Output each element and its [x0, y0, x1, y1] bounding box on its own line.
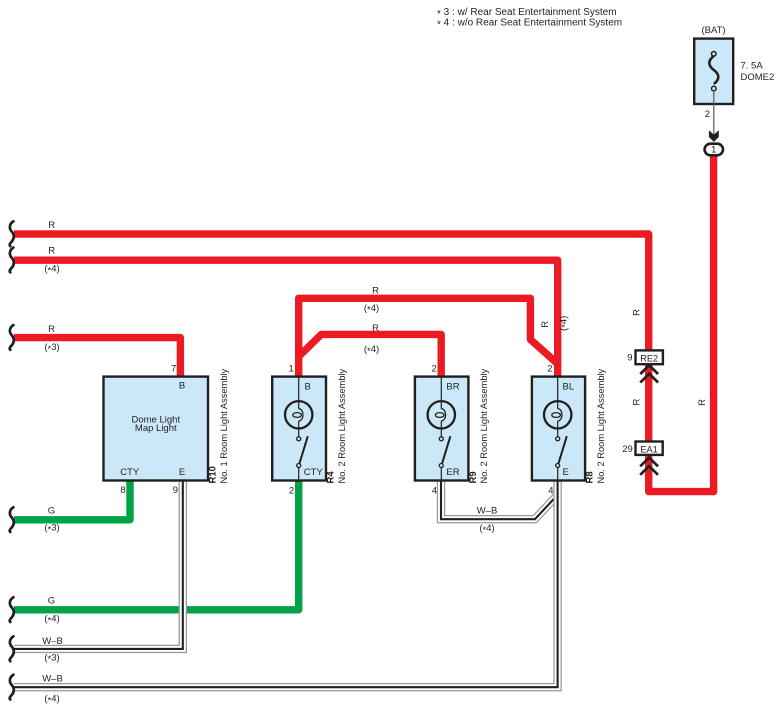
- svg-text:R: R: [697, 399, 708, 406]
- svg-text:R: R: [632, 398, 643, 405]
- box R10 Dome Light Map Light: [104, 377, 209, 481]
- svg-text:R: R: [632, 309, 643, 316]
- svg-text:W–B: W–B: [42, 674, 63, 685]
- wire G (*3) from R10 pin 8: [14, 480, 130, 520]
- svg-text:RE2: RE2: [640, 353, 658, 363]
- svg-text:R: R: [48, 245, 55, 256]
- svg-text:7. 5A: 7. 5A: [741, 60, 764, 71]
- wire R (*4) to R8 pin 2: [14, 260, 558, 377]
- svg-text:(*3): (*3): [44, 652, 59, 665]
- svg-text:1: 1: [711, 144, 716, 155]
- svg-text:R: R: [48, 324, 55, 335]
- connector oval 1: [705, 144, 723, 156]
- svg-text:R9: R9: [468, 471, 479, 483]
- svg-text:R: R: [372, 286, 379, 297]
- svg-text:4: 4: [432, 486, 437, 497]
- svg-text:(*4): (*4): [364, 303, 379, 316]
- svg-text:(*4): (*4): [479, 523, 494, 536]
- break squiggle wire G1: [10, 507, 14, 532]
- box R8 No.2 Room Light Assembly: [532, 377, 585, 481]
- svg-text:CTY: CTY: [304, 467, 324, 478]
- svg-text:No. 1 Room Light Assembly: No. 1 Room Light Assembly: [219, 368, 229, 483]
- break squiggle wire WB3: [10, 636, 14, 661]
- wire W-B (*3) from R10 pin9 to left: [14, 480, 183, 649]
- box R9 No.2 Room Light Assembly: [415, 377, 469, 481]
- svg-text:(*4): (*4): [44, 694, 59, 707]
- svg-text:2: 2: [289, 486, 294, 497]
- box R4 No.2 Room Light Assembly: [272, 377, 326, 481]
- break squiggle wire A: [10, 221, 14, 246]
- svg-text:9: 9: [627, 352, 632, 363]
- wire R (from fuse DOME2 via EA1/RE2 to left, net B+): [14, 152, 714, 492]
- svg-text:DOME2: DOME2: [741, 72, 775, 83]
- svg-text:G: G: [48, 506, 55, 517]
- svg-text:(*4): (*4): [364, 344, 379, 357]
- svg-text:B: B: [305, 382, 311, 393]
- svg-text:No. 2 Room Light Assembly: No. 2 Room Light Assembly: [337, 368, 347, 483]
- wire R (*3) to R10 pin 7: [14, 338, 180, 377]
- svg-text:(*3): (*3): [44, 523, 59, 536]
- svg-text:8: 8: [120, 485, 125, 496]
- svg-text:B: B: [179, 381, 185, 392]
- svg-text:BL: BL: [563, 382, 575, 393]
- svg-text:R: R: [372, 323, 379, 334]
- break squiggle wire WB4: [10, 675, 14, 700]
- svg-text:EA1: EA1: [640, 444, 657, 454]
- svg-text:R10: R10: [208, 466, 219, 483]
- svg-text:R4: R4: [326, 471, 337, 484]
- wire R (*4) R4 pin1 to R8 pin2: [299, 298, 558, 377]
- break squiggle wire G2: [10, 597, 14, 622]
- svg-text:No. 2 Room Light Assembly: No. 2 Room Light Assembly: [596, 368, 606, 483]
- svg-text:29: 29: [622, 444, 633, 455]
- svg-text:(BAT): (BAT): [701, 25, 725, 36]
- wire R (*4) R4 pin1 to R9 pin2: [299, 334, 442, 377]
- svg-text:(*3): (*3): [44, 342, 59, 355]
- svg-text:E: E: [563, 467, 569, 478]
- svg-text:1: 1: [289, 364, 294, 375]
- connector EA1 pin 29: [622, 442, 662, 475]
- svg-text:7: 7: [171, 363, 176, 374]
- svg-text:E: E: [179, 467, 185, 478]
- wire W-B (*4) R9 pin4 to R8 pin4 junction: [441, 480, 558, 519]
- fuse 7.5A DOME2: [694, 25, 774, 142]
- svg-text:* 4 : w/o Rear Seat Entertainm: * 4 : w/o Rear Seat Entertainment System: [437, 18, 622, 31]
- connector RE2 pin 9: [627, 350, 663, 382]
- svg-text:W–B: W–B: [477, 506, 498, 517]
- svg-text:Map Light: Map Light: [135, 423, 177, 434]
- svg-text:R: R: [540, 321, 551, 328]
- svg-text:(*4): (*4): [44, 614, 59, 627]
- svg-text:2: 2: [705, 109, 710, 120]
- svg-text:G: G: [48, 595, 55, 606]
- svg-text:9: 9: [173, 485, 178, 496]
- svg-text:BR: BR: [446, 382, 459, 393]
- wire W-B (*4) from R8 pin4 to left: [14, 480, 558, 687]
- svg-text:R: R: [48, 220, 55, 231]
- svg-text:No. 2 Room Light Assembly: No. 2 Room Light Assembly: [479, 368, 489, 483]
- svg-text:(*4): (*4): [44, 264, 59, 277]
- svg-text:(*4): (*4): [558, 316, 571, 331]
- svg-text:2: 2: [432, 364, 437, 375]
- break squiggle wire C: [10, 325, 14, 350]
- svg-text:R8: R8: [585, 471, 596, 483]
- svg-text:2: 2: [547, 364, 552, 375]
- svg-text:4: 4: [548, 486, 553, 497]
- wire G (*4) from R4 pin 2: [14, 480, 299, 610]
- break squiggle wire B: [10, 248, 14, 273]
- svg-text:CTY: CTY: [120, 467, 140, 478]
- svg-text:ER: ER: [446, 467, 459, 478]
- svg-text:W–B: W–B: [42, 636, 63, 647]
